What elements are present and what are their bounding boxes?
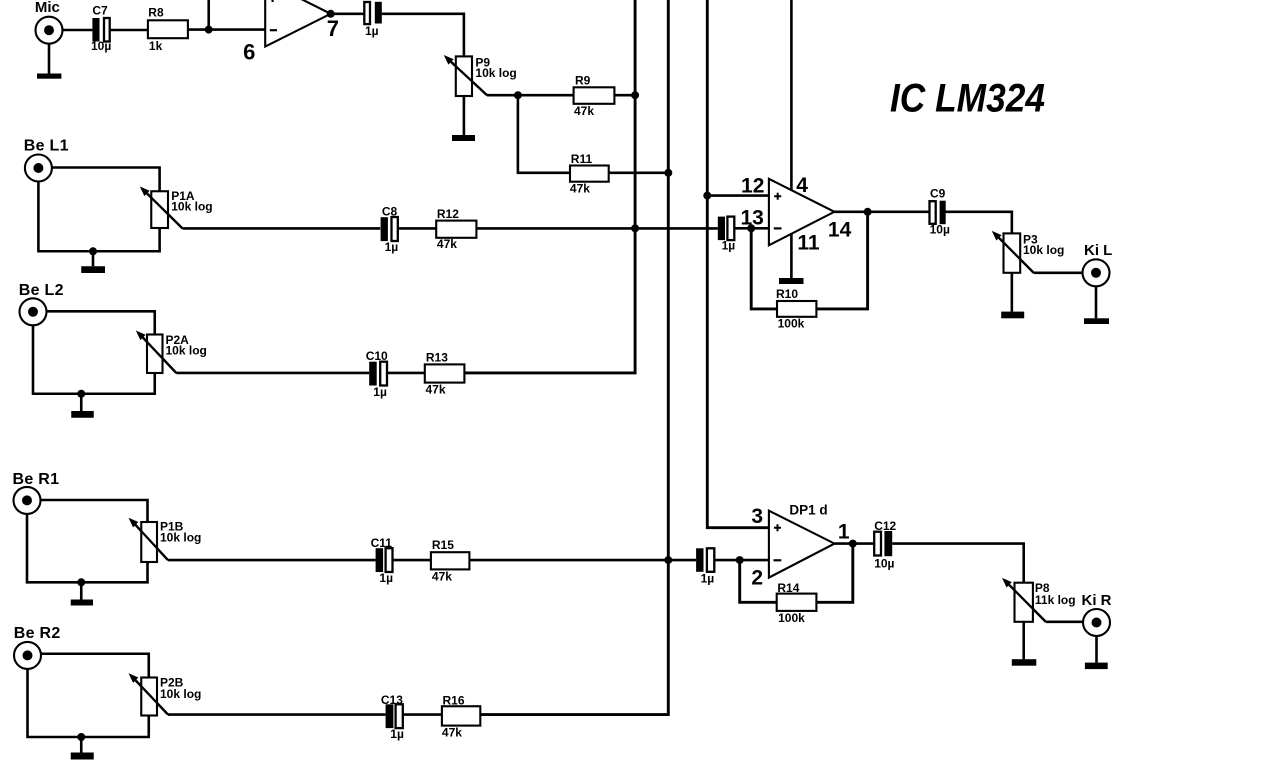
svg-text:R16: R16 bbox=[443, 693, 465, 707]
svg-text:47k: 47k bbox=[437, 237, 457, 251]
svg-text:14: 14 bbox=[828, 219, 852, 242]
svg-text:3: 3 bbox=[751, 505, 763, 528]
svg-text:1µ: 1µ bbox=[390, 727, 404, 741]
svg-text:Be L1: Be L1 bbox=[24, 138, 69, 155]
svg-text:10k log: 10k log bbox=[171, 200, 212, 214]
svg-text:7: 7 bbox=[327, 16, 339, 41]
svg-text:10k log: 10k log bbox=[1023, 243, 1064, 257]
svg-text:10µ: 10µ bbox=[91, 39, 111, 53]
svg-text:C8: C8 bbox=[382, 204, 398, 218]
svg-text:10k log: 10k log bbox=[160, 531, 201, 545]
svg-text:1µ: 1µ bbox=[379, 571, 393, 585]
svg-text:47k: 47k bbox=[570, 181, 590, 195]
svg-text:C9: C9 bbox=[930, 187, 946, 201]
svg-text:C7: C7 bbox=[92, 4, 108, 18]
svg-text:Ki L: Ki L bbox=[1084, 242, 1112, 259]
svg-text:C11: C11 bbox=[371, 536, 393, 550]
svg-text:10k log: 10k log bbox=[166, 344, 207, 358]
svg-text:47k: 47k bbox=[432, 570, 452, 584]
svg-text:C10: C10 bbox=[366, 349, 388, 363]
svg-text:Mic: Mic bbox=[35, 0, 60, 16]
svg-text:R14: R14 bbox=[777, 581, 799, 595]
svg-text:1µ: 1µ bbox=[373, 385, 387, 399]
svg-text:DP1 d: DP1 d bbox=[789, 502, 827, 517]
svg-text:R13: R13 bbox=[426, 351, 448, 365]
svg-text:12: 12 bbox=[741, 174, 764, 197]
svg-text:47k: 47k bbox=[426, 383, 446, 397]
svg-text:10k log: 10k log bbox=[160, 687, 201, 701]
svg-text:1µ: 1µ bbox=[722, 239, 736, 253]
svg-text:C13: C13 bbox=[381, 693, 403, 707]
svg-text:R12: R12 bbox=[437, 207, 459, 221]
svg-text:R15: R15 bbox=[432, 538, 454, 552]
svg-text:1µ: 1µ bbox=[365, 24, 379, 38]
svg-text:11: 11 bbox=[797, 231, 820, 254]
svg-text:4: 4 bbox=[796, 174, 808, 197]
svg-text:10k log: 10k log bbox=[475, 66, 516, 80]
svg-text:1: 1 bbox=[838, 521, 850, 544]
svg-text:2: 2 bbox=[751, 566, 763, 589]
svg-text:10µ: 10µ bbox=[874, 556, 894, 570]
svg-text:R11: R11 bbox=[571, 152, 593, 166]
svg-text:1µ: 1µ bbox=[385, 240, 399, 254]
svg-text:47k: 47k bbox=[442, 726, 462, 740]
svg-text:100k: 100k bbox=[778, 611, 805, 625]
svg-text:10µ: 10µ bbox=[930, 222, 950, 236]
svg-text:Be R2: Be R2 bbox=[14, 625, 61, 642]
svg-text:13: 13 bbox=[740, 207, 763, 230]
svg-text:47k: 47k bbox=[574, 104, 594, 118]
svg-text:R10: R10 bbox=[776, 287, 798, 301]
svg-text:6: 6 bbox=[243, 40, 255, 65]
svg-text:C12: C12 bbox=[874, 519, 896, 533]
svg-text:Be R1: Be R1 bbox=[13, 471, 60, 488]
svg-text:R8: R8 bbox=[148, 6, 164, 20]
svg-text:1k: 1k bbox=[149, 39, 163, 53]
svg-text:100k: 100k bbox=[778, 317, 805, 331]
svg-text:1µ: 1µ bbox=[701, 571, 715, 585]
svg-text:IC LM324: IC LM324 bbox=[890, 77, 1045, 121]
svg-text:Be L2: Be L2 bbox=[19, 282, 64, 299]
svg-text:Ki R: Ki R bbox=[1082, 592, 1112, 609]
svg-text:11k log: 11k log bbox=[1035, 593, 1076, 607]
svg-text:R9: R9 bbox=[575, 73, 591, 87]
